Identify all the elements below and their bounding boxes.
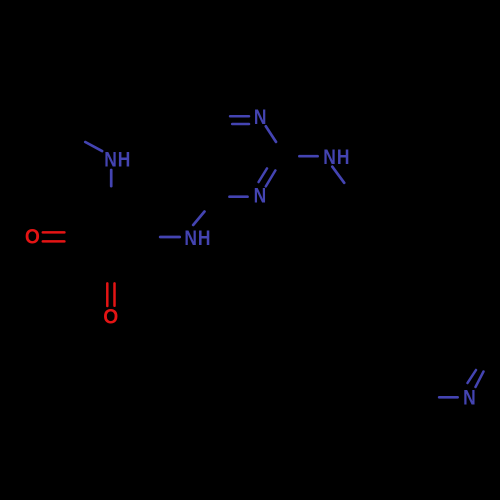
bond NH to CH2, blue half — [332, 167, 344, 183]
bond N1 to C2, blue half — [266, 126, 276, 142]
bond pyridine N=C double, blue halves — [476, 372, 484, 388]
bond C2 to NH, blue half — [299, 155, 317, 158]
bond squarate C4 to NH, blue half — [160, 236, 180, 239]
bond C2=N3 double, blue halves — [266, 170, 276, 186]
svg-text:N: N — [254, 185, 268, 208]
svg-text:O: O — [25, 226, 41, 249]
bond C2=O double, red halves — [106, 283, 109, 306]
svg-text:NH: NH — [104, 149, 131, 172]
bond NH to pyrimidine C4, blue half — [193, 212, 204, 226]
bond N3 to C4, blue half — [230, 195, 248, 198]
bond N(methylamino) to CH3, blue half — [85, 142, 102, 151]
bond C6=N1 double, blue halves — [230, 115, 249, 118]
svg-text:O: O — [103, 306, 119, 329]
svg-text:NH: NH — [184, 228, 211, 251]
bond NH to squarate C3, blue half — [110, 170, 113, 186]
svg-text:NH: NH — [323, 146, 350, 169]
bond pyridine C to N, blue half — [439, 396, 457, 399]
bond C1=O double, red halves — [43, 231, 65, 234]
svg-text:N: N — [463, 387, 477, 410]
